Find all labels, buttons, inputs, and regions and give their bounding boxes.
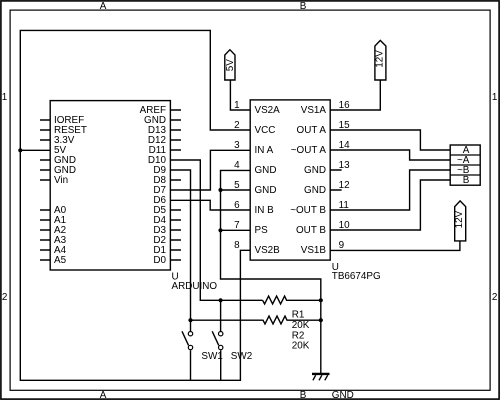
wire GND chain pins 4 5 7 to ground rail bbox=[221, 170, 321, 373]
wire pin 7 branch bbox=[221, 229, 251, 231]
svg-text:12V: 12V bbox=[454, 210, 465, 228]
svg-text:A: A bbox=[100, 390, 107, 400]
arduino right bare pin stubs bbox=[170, 110, 181, 260]
svg-text:D0: D0 bbox=[153, 255, 166, 266]
svg-text:IN A: IN A bbox=[255, 145, 274, 156]
svg-text:GND: GND bbox=[255, 185, 277, 196]
svg-text:~OUT A: ~OUT A bbox=[291, 145, 327, 156]
svg-text:GND: GND bbox=[304, 185, 326, 196]
svg-text:13: 13 bbox=[339, 160, 350, 171]
svg-text:7: 7 bbox=[234, 220, 240, 231]
svg-text:GND: GND bbox=[304, 165, 326, 176]
svg-text:5: 5 bbox=[234, 180, 240, 191]
svg-text:B: B bbox=[300, 1, 307, 12]
svg-text:OUT A: OUT A bbox=[297, 125, 327, 136]
chip right bare stubs pins 13 12 bbox=[330, 170, 341, 190]
power flag 5V bbox=[225, 50, 236, 80]
svg-text:GND: GND bbox=[332, 390, 354, 400]
svg-text:1: 1 bbox=[2, 92, 8, 103]
wire D7 to pin 3 IN A bbox=[170, 150, 250, 190]
svg-text:12V: 12V bbox=[374, 50, 385, 68]
svg-text:VS2A: VS2A bbox=[255, 105, 281, 116]
wire pin 10 OUT B to connector B bbox=[330, 180, 450, 230]
svg-text:B: B bbox=[300, 390, 307, 400]
resistor R1 bbox=[263, 296, 321, 331]
svg-text:8: 8 bbox=[234, 240, 240, 251]
switch SW2 bbox=[212, 300, 252, 380]
junction pin7 PS bbox=[218, 228, 222, 232]
wire D6 to pin 6 IN B bbox=[170, 200, 250, 210]
svg-text:4: 4 bbox=[234, 160, 240, 171]
power flag 12V (VS1B) bbox=[454, 201, 466, 241]
power flag 12V (VS1A) bbox=[374, 40, 386, 80]
svg-text:10: 10 bbox=[339, 220, 350, 231]
junction R1 right on ground line bbox=[319, 298, 323, 302]
svg-text:R1: R1 bbox=[292, 309, 305, 320]
svg-text:2: 2 bbox=[234, 120, 240, 131]
wire 5V pin of arduino bbox=[20, 149, 50, 151]
ground bbox=[312, 374, 330, 380]
svg-text:5V: 5V bbox=[225, 59, 236, 71]
IC U TB6674PG bbox=[250, 100, 380, 282]
svg-text:TB6674PG: TB6674PG bbox=[332, 271, 381, 282]
svg-text:14: 14 bbox=[339, 140, 350, 151]
svg-text:PS: PS bbox=[255, 225, 269, 236]
svg-text:GND: GND bbox=[255, 165, 277, 176]
svg-text:SW2: SW2 bbox=[231, 351, 252, 362]
junction R2 right on ground line bbox=[319, 318, 323, 322]
svg-text:VS1A: VS1A bbox=[301, 105, 327, 116]
svg-text:15: 15 bbox=[339, 120, 350, 131]
wire pin 15 OUT A to connector A bbox=[330, 130, 450, 150]
svg-text:11: 11 bbox=[339, 200, 350, 211]
svg-text:ARDUINO: ARDUINO bbox=[172, 281, 218, 292]
wire 5V flag to pin 1 VS2A bbox=[230, 80, 250, 110]
svg-text:A5: A5 bbox=[54, 255, 67, 266]
junction pin5 GND bbox=[218, 188, 222, 192]
svg-text:VS1B: VS1B bbox=[301, 245, 327, 256]
svg-text:IN B: IN B bbox=[255, 205, 275, 216]
arduino left bare pin stubs bbox=[40, 120, 50, 260]
svg-text:3: 3 bbox=[234, 140, 240, 151]
svg-text:2: 2 bbox=[2, 292, 8, 303]
wire pin 5 branch bbox=[221, 189, 251, 191]
svg-text:~OUT B: ~OUT B bbox=[290, 205, 326, 216]
svg-text:VCC: VCC bbox=[255, 125, 276, 136]
junction D10 R1 SW2 node bbox=[219, 298, 223, 302]
svg-text:OUT B: OUT B bbox=[296, 225, 326, 236]
resistor R2 bbox=[191, 316, 321, 351]
wire pin 14 ~OUT A to connector ~A bbox=[330, 150, 450, 160]
wire D9 down to SW1 bbox=[170, 170, 190, 331]
connector J1 motor terminals bbox=[450, 145, 480, 186]
wire pin 11 ~OUT B to connector ~B bbox=[330, 170, 450, 210]
wire 5V net: VCC drop, top rail, left rail, bottom rail, VS2B riser bbox=[20, 30, 250, 380]
svg-text:Vin: Vin bbox=[54, 175, 68, 186]
svg-text:1: 1 bbox=[234, 100, 240, 111]
svg-text:1: 1 bbox=[492, 92, 498, 103]
svg-text:VS2B: VS2B bbox=[255, 245, 281, 256]
svg-text:A: A bbox=[100, 1, 107, 12]
wire D10 to SW2 node and R1 left lead bbox=[170, 160, 262, 300]
junction D9 R2 SW1 node bbox=[188, 318, 192, 322]
svg-text:2: 2 bbox=[492, 292, 498, 303]
svg-text:20K: 20K bbox=[292, 320, 310, 331]
switch SW1 bbox=[182, 331, 223, 380]
junction on 5V left rail bbox=[18, 148, 22, 152]
svg-text:16: 16 bbox=[339, 100, 350, 111]
wire pin 16 VS1A to 12V flag bbox=[330, 80, 380, 110]
svg-text:20K: 20K bbox=[292, 340, 310, 351]
svg-text:9: 9 bbox=[339, 240, 345, 251]
svg-text:B: B bbox=[463, 175, 470, 186]
svg-text:6: 6 bbox=[234, 200, 240, 211]
wire pin 9 VS1B to 12V flag bbox=[330, 241, 460, 251]
svg-text:12: 12 bbox=[339, 180, 350, 191]
IC U ARDUINO bbox=[50, 101, 217, 292]
